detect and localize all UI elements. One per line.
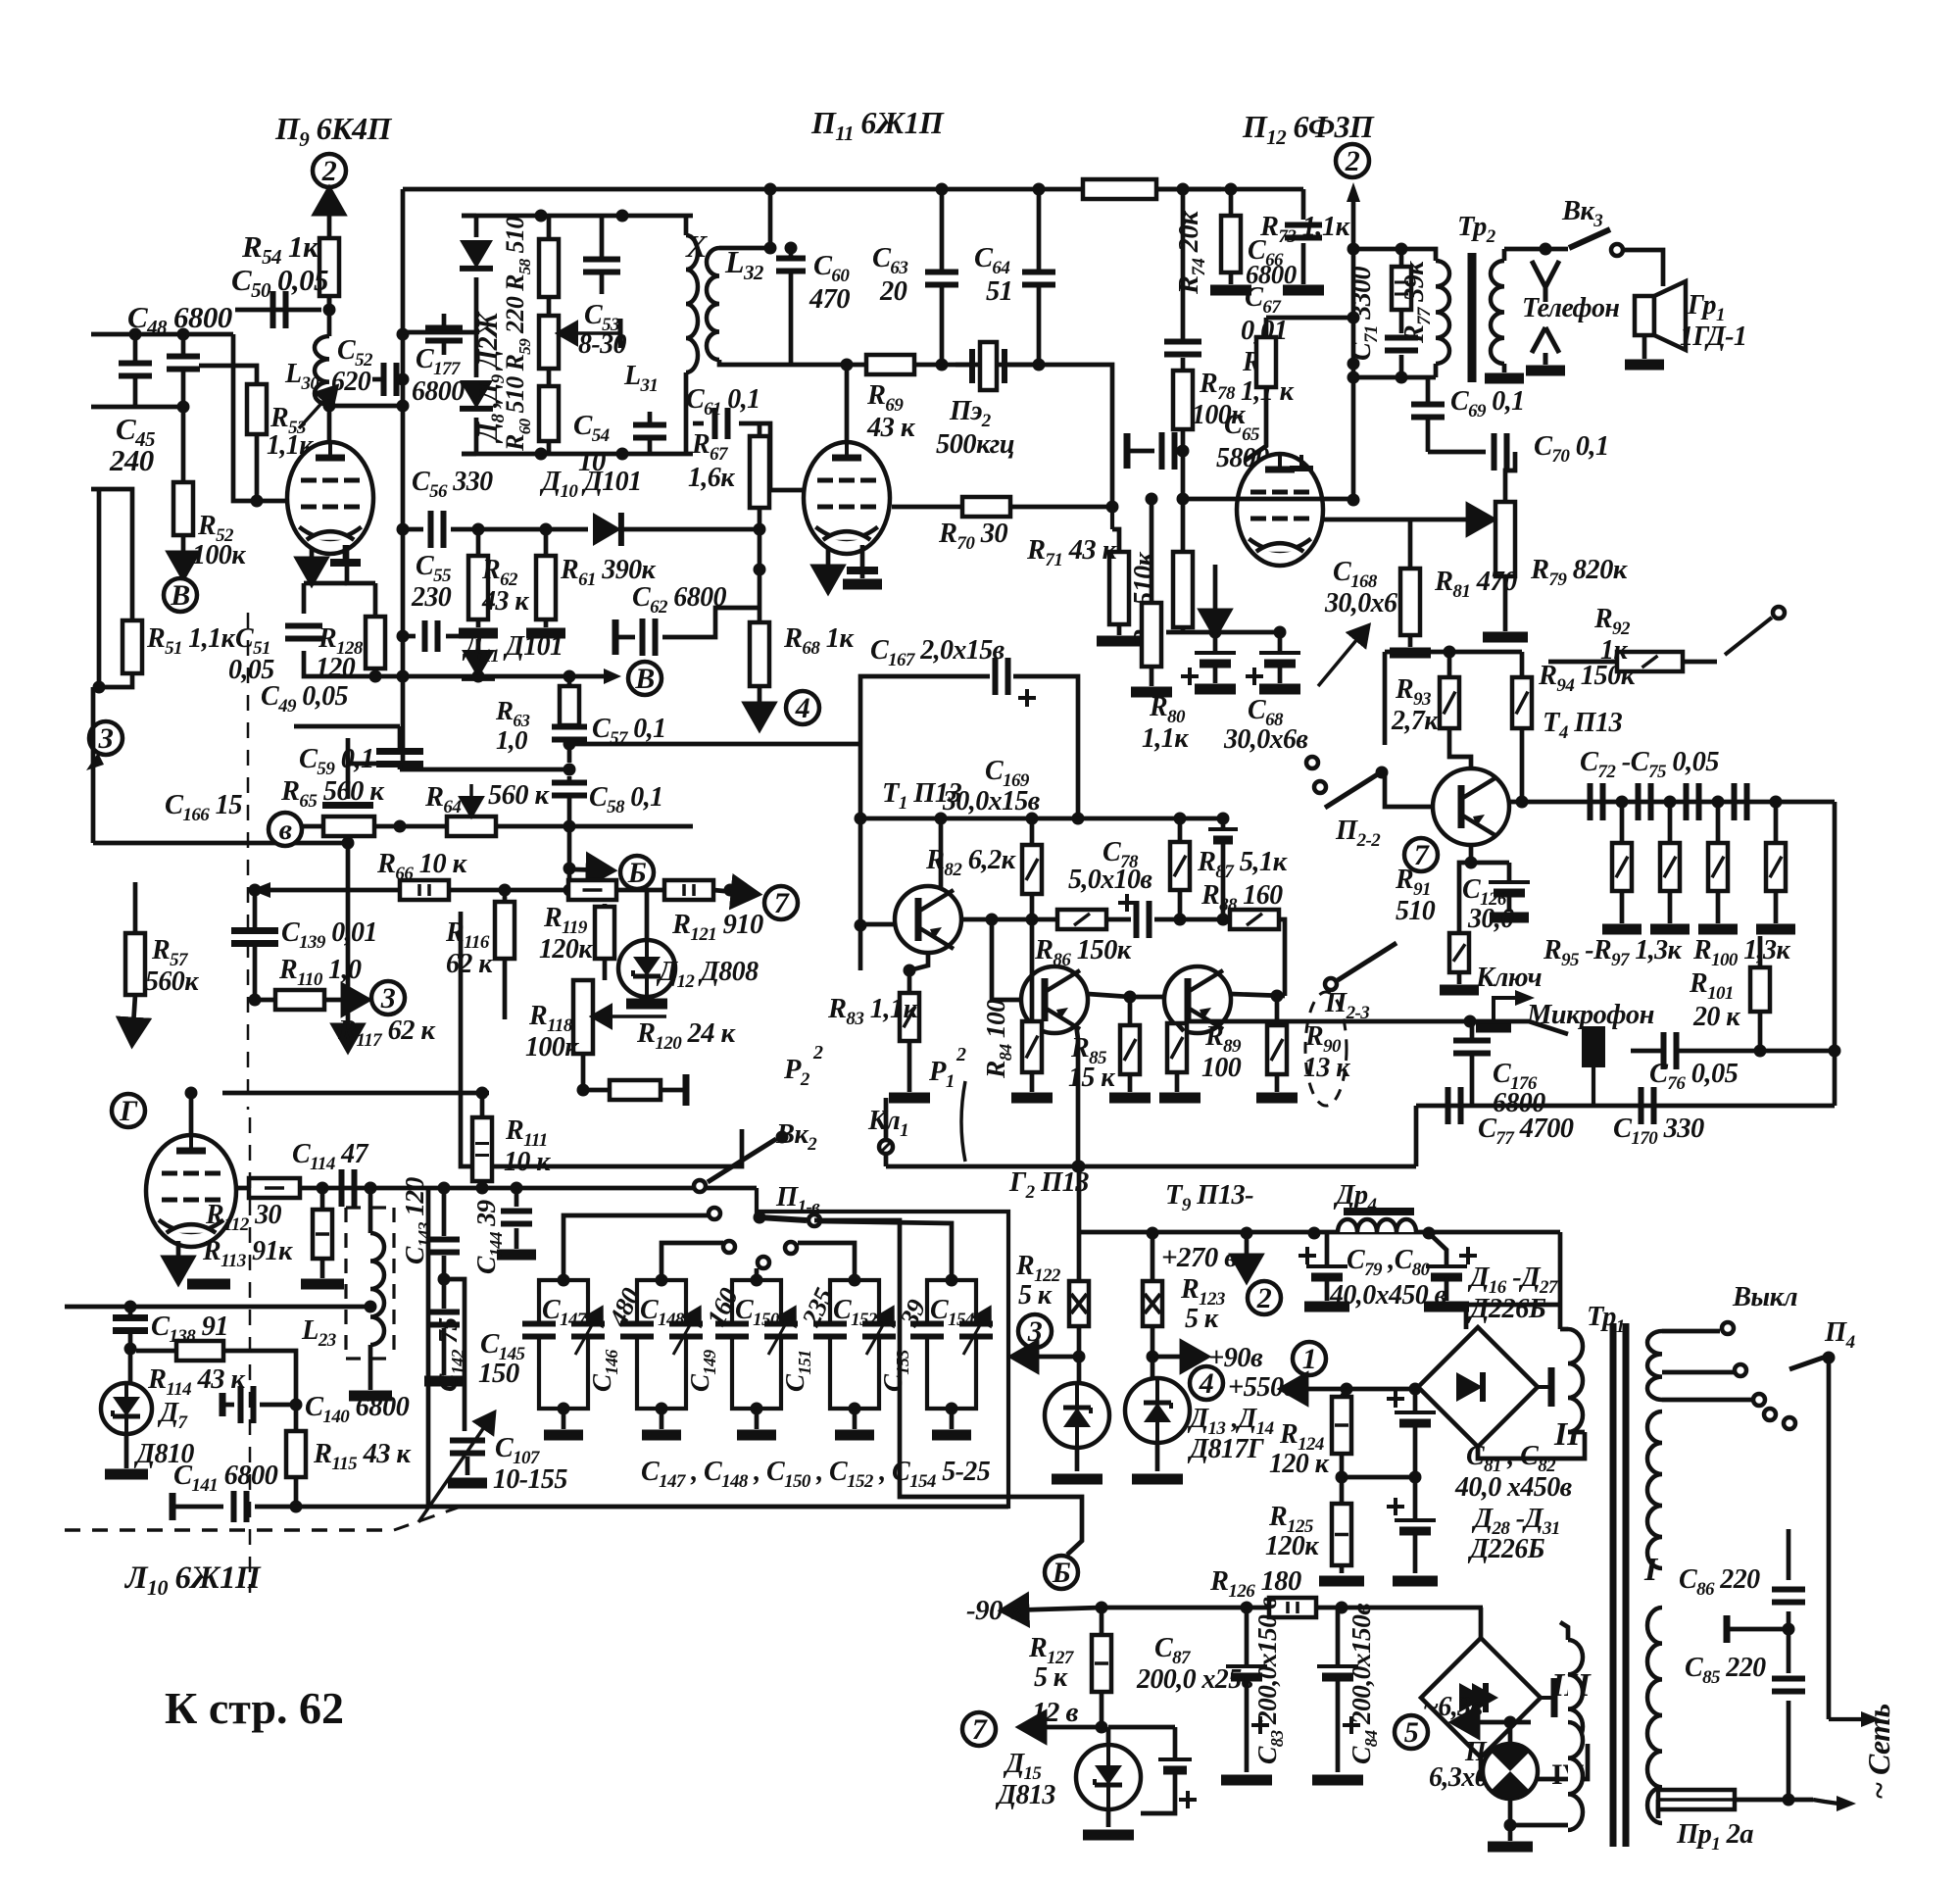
svg-text:Г: Г (119, 1095, 138, 1127)
wire row y509 (1183, 497, 1353, 502)
svg-text:150: 150 (478, 1358, 519, 1389)
capacitor C51 (285, 623, 322, 629)
resistor R79 pot (1495, 502, 1515, 576)
bridge III (1421, 1638, 1554, 1757)
svg-text:R81 470: R81 470 (1434, 567, 1517, 602)
resistor R69 (866, 355, 914, 374)
svg-text:R121 910: R121 910 (671, 910, 763, 945)
svg-text:7: 7 (1414, 839, 1430, 871)
svg-text:Д10 Д101: Д10 Д101 (539, 467, 641, 502)
phone jack lower (1532, 327, 1559, 365)
capacitor C66 (1301, 189, 1306, 220)
svg-text:С147 , С148 , С150 , С152 , С1: С147 , С148 , С150 , С152 , С154 5-25 (641, 1457, 991, 1492)
svg-text:5: 5 (1404, 1716, 1419, 1749)
resistor R67 (750, 436, 769, 508)
resistor R121 (664, 880, 713, 900)
T4 collector row (1509, 800, 1835, 805)
svg-text:С61 0,1: С61 0,1 (686, 384, 760, 420)
trimmer C107 (450, 1438, 485, 1444)
wire box left with diodes (474, 216, 479, 237)
svg-text:560 к: 560 к (488, 780, 550, 811)
bottom rail y1190 (886, 1164, 1416, 1169)
capacitor C54 (633, 422, 666, 428)
wire bus right of R73 (1156, 187, 1303, 192)
П4 feed down (1827, 1358, 1832, 1719)
transistor Т4 (1433, 768, 1509, 845)
wire tube П10 top (189, 1093, 194, 1135)
switch П2-2 (1306, 757, 1318, 768)
divider box outline (461, 912, 742, 1166)
bridge II top lead (1466, 1305, 1560, 1329)
choke Др4 coil (1338, 1219, 1416, 1232)
svg-text:С59 0,1: С59 0,1 (299, 744, 374, 779)
wire tap row y1333 (65, 1305, 370, 1310)
svg-text:4: 4 (795, 692, 810, 724)
diode Д8 (460, 240, 493, 269)
svg-text:2,7к: 2,7к (1391, 706, 1439, 736)
resistor R124 (1332, 1397, 1351, 1454)
primary winding I (1647, 1411, 1662, 1568)
zener Д13 (1077, 1357, 1082, 1383)
capacitor C70 (1428, 450, 1486, 455)
wire tube plate (327, 406, 332, 443)
capacitor C76 (1661, 1032, 1667, 1069)
winding IV (1568, 1722, 1583, 1830)
bottom long rail y1128 (1416, 1104, 1835, 1109)
svg-text:1к: 1к (1600, 635, 1628, 666)
capacitor C60 (776, 256, 806, 262)
resistor R84 (1022, 1021, 1042, 1072)
svg-text:Д817Г: Д817Г (1187, 1434, 1265, 1464)
center tap bar (1754, 1627, 1788, 1632)
piezo ПЭ2 (980, 342, 997, 390)
capacitor C77 in rail (1445, 1087, 1451, 1124)
capacitor C63 (925, 270, 958, 275)
capacitor C61 (693, 421, 704, 426)
svg-text:1: 1 (1302, 1343, 1316, 1375)
svg-text:2: 2 (812, 1042, 823, 1064)
terminal 1 power (1293, 1342, 1326, 1375)
wire grid3 row (892, 505, 962, 510)
terminal 2 (anode supply, left) (313, 154, 346, 187)
svg-text:С69 0,1: С69 0,1 (1450, 386, 1525, 421)
svg-text:С85 220: С85 220 (1685, 1653, 1766, 1688)
wire corner to grid (233, 334, 290, 501)
svg-text:+270 в: +270 в (1161, 1242, 1237, 1273)
zener Д14 (1151, 1357, 1155, 1378)
svg-text:С170 330: С170 330 (1613, 1114, 1704, 1149)
svg-text:8-30: 8-30 (578, 329, 627, 360)
T1 base wire (860, 922, 895, 927)
bottom rail of Тр2 cell (1353, 375, 1436, 380)
bridge II bottom lead (1478, 1432, 1585, 1459)
svg-text:620: 620 (331, 367, 371, 397)
diode Д9 (460, 380, 493, 409)
cathode rail П12 (1166, 630, 1280, 635)
svg-text:С141 6800: С141 6800 (173, 1460, 278, 1496)
resistor R116 (495, 902, 514, 959)
zener Д15 (1106, 1727, 1111, 1745)
T1 top rail y835 (860, 817, 1223, 821)
resistor R51 (122, 620, 142, 673)
terminal Б (620, 856, 654, 889)
bank cell С_{150} (732, 1280, 781, 1409)
resistor R90 (1267, 1025, 1287, 1074)
resistor R128 (366, 617, 385, 668)
svg-text:100к: 100к (525, 1032, 579, 1063)
svg-text:Д226Б: Д226Б (1467, 1534, 1545, 1564)
resistor R53 (247, 384, 267, 434)
bank cell С_{154} (927, 1280, 976, 1409)
capacitor C176 (1453, 1038, 1491, 1044)
primary winding top section (1647, 1331, 1662, 1400)
svg-text:~ Сеть: ~ Сеть (1861, 1705, 1896, 1801)
svg-text:240: 240 (109, 443, 154, 477)
mid rail (1342, 1475, 1415, 1480)
svg-text:I: I (1643, 1552, 1659, 1588)
resistor R80 (1142, 603, 1161, 667)
resistor R74 (1221, 216, 1241, 272)
tube П11 cathode arrow (826, 549, 831, 588)
resistor R72 body (1173, 371, 1193, 429)
switch П4 lever (1789, 1356, 1829, 1369)
svg-text:в: в (279, 814, 292, 846)
switch Вк3 (1569, 229, 1610, 248)
svg-text:П11 6Ж1П: П11 6Ж1П (810, 105, 945, 145)
svg-text:7: 7 (774, 887, 790, 919)
resistor R91 (1449, 933, 1469, 972)
svg-text:10 к: 10 к (504, 1147, 551, 1177)
fuse Пр1 (1656, 1800, 1661, 1818)
wire R78 top to x1381 (1266, 316, 1353, 321)
capacitor C50 (235, 308, 321, 313)
capacitor C78 electrolytic (1134, 901, 1140, 938)
resistor R123 with x (1143, 1281, 1162, 1326)
svg-text:120 к: 120 к (1269, 1449, 1330, 1479)
cathode network wires (347, 545, 375, 583)
svg-text:Б: Б (627, 857, 647, 889)
arrow R110 to 3 (324, 998, 365, 1003)
terminal З left (89, 721, 122, 755)
wire З link from terminal (346, 738, 351, 745)
resistor R60 (539, 386, 559, 441)
electrolytic C79 (1306, 1264, 1347, 1268)
svg-text:6800: 6800 (412, 376, 465, 407)
resistor R70 (962, 497, 1010, 517)
resistor R93 (1440, 677, 1459, 728)
arrow R57 down (132, 995, 135, 1041)
bank top leads (563, 1215, 708, 1280)
wire row y1212 (237, 1186, 757, 1191)
transistor Т3 (1164, 966, 1231, 1033)
svg-text:R126 180: R126 180 (1209, 1566, 1301, 1602)
resistors R95-R97, R100 (1612, 843, 1632, 891)
resistor R65 (323, 817, 374, 836)
vertical x1207 with C67 (1181, 189, 1186, 339)
collector row y938 (961, 917, 1057, 922)
terminal 4 power (1190, 1366, 1223, 1400)
svg-text:С86 220: С86 220 (1679, 1564, 1760, 1600)
bridge II (1418, 1327, 1551, 1447)
wire row y860 left (93, 841, 348, 846)
resistor R120 h (610, 1080, 661, 1100)
tube П10 cathode arrow (176, 1241, 181, 1279)
wire to R67 column (666, 527, 759, 532)
rail end down to winding II (1558, 1232, 1563, 1329)
capacitor C69 (1411, 402, 1445, 408)
capacitor C57 (552, 724, 587, 730)
svg-text:Ключ: Ключ (1475, 963, 1543, 993)
resistor R54 (319, 238, 339, 296)
capacitor C144 (514, 1188, 519, 1207)
capacitor C59 (376, 748, 423, 755)
transformer Тр2 secondary (1491, 261, 1504, 364)
svg-text:3: 3 (380, 982, 396, 1015)
diode Д10 (593, 513, 621, 546)
svg-text:С139 0,01: С139 0,01 (281, 917, 377, 953)
capacitor C177 (425, 325, 463, 331)
terminal 3 power (1018, 1314, 1052, 1348)
svg-text:7: 7 (972, 1713, 988, 1746)
resistor R101 v (1750, 967, 1770, 1012)
svg-text:5,0х10в: 5,0х10в (1068, 865, 1152, 895)
resistor R115 (286, 1431, 306, 1477)
inductor L30 variable (327, 296, 332, 336)
wire second horizontal (91, 405, 183, 410)
wire x581 down to Б row (567, 826, 572, 890)
T2 collector to T3 (1088, 994, 1130, 997)
svg-text:R82 6,2к: R82 6,2к (925, 845, 1017, 880)
small electrolytic near Д15 (1108, 1725, 1175, 1730)
svg-text:4: 4 (1199, 1367, 1214, 1400)
caps C72-C75 row (1588, 783, 1593, 820)
resistor R89 (1167, 1023, 1187, 1072)
svg-text:5 к: 5 к (1034, 1662, 1068, 1693)
arrow up to terminal 2 right (1351, 196, 1356, 249)
primary winding bottom (1647, 1608, 1662, 1823)
svg-text:R117 62 к: R117 62 к (337, 1015, 436, 1051)
svg-text:40,0х450 в: 40,0х450 в (1329, 1280, 1447, 1311)
electrolytic C80 (1426, 1264, 1467, 1268)
capacitor C114 (339, 1169, 345, 1207)
double diode in bridge III (1472, 1683, 1498, 1712)
microphone symbol (1582, 1026, 1605, 1067)
svg-text:R66 10 к: R66 10 к (376, 849, 468, 884)
lamp bottom (1508, 1799, 1513, 1825)
svg-text:30,0: 30,0 (1467, 904, 1514, 934)
zener Д7 (101, 1383, 152, 1434)
wire secondary top to phones (1504, 247, 1545, 252)
resistor R83 (900, 993, 919, 1041)
resistor R73 on bus (1083, 179, 1156, 199)
svg-text:Выкл: Выкл (1732, 1282, 1797, 1312)
lamp IV (1483, 1744, 1538, 1799)
svg-text:R68 1к: R68 1к (783, 623, 855, 659)
terminal 2 right (1336, 144, 1369, 177)
svg-text:Телефон: Телефон (1522, 293, 1619, 323)
dashed box L23 (346, 1208, 394, 1359)
resistor R86 body (1057, 910, 1106, 929)
svg-text:30,0х15в: 30,0х15в (942, 786, 1041, 817)
arrow to Б (573, 869, 610, 870)
resistor R57 (125, 933, 145, 995)
column C143/C142 (442, 1188, 447, 1236)
svg-text:30,0х6в: 30,0х6в (1223, 724, 1308, 755)
resistor R88 horizontal (1230, 910, 1279, 929)
capacitor C167 electrolytic horizontal (860, 676, 990, 744)
svg-text:5 к: 5 к (1018, 1280, 1053, 1311)
svg-text:В: В (634, 663, 654, 695)
capacitor C170 in rail (1639, 1087, 1644, 1124)
tube П9 (287, 442, 373, 554)
resistor R118 pot (573, 980, 593, 1054)
transistor Т1 (895, 886, 961, 953)
resistor R85 (1120, 1025, 1140, 1074)
resistor R92 slash horiz (1617, 652, 1683, 671)
capacitor C62 (612, 619, 619, 655)
bank cell С_{148} (637, 1280, 686, 1409)
bank cell С_{152} (830, 1280, 879, 1409)
key P1 lever (961, 1081, 965, 1162)
svg-text:R79 820к: R79 820к (1530, 555, 1629, 590)
dashed fold lines (247, 613, 250, 1110)
wire riser x1135 (1033, 359, 1046, 371)
svg-text:Б: Б (1052, 1557, 1071, 1589)
arrow 12в (1023, 1725, 1102, 1730)
electrolytic C169 drop (1208, 827, 1238, 831)
resistor R94 (1512, 677, 1532, 728)
svg-text:1ГД-1: 1ГД-1 (1680, 322, 1746, 352)
wire З row (348, 762, 403, 767)
terminal 7 power (962, 1712, 996, 1746)
svg-text:Т4 П13: Т4 П13 (1543, 708, 1622, 743)
resistor R127 (1092, 1635, 1111, 1692)
resistor R112 (249, 1178, 300, 1198)
winding II (1568, 1329, 1583, 1432)
resistor R125 (1332, 1504, 1351, 1565)
tube П9 cathode arrow (310, 549, 315, 580)
resistor R58 (539, 239, 559, 297)
wire bus to box (403, 330, 476, 335)
capacitor C65 (1127, 449, 1154, 454)
wire x355 down arrow (346, 843, 351, 1010)
resistor R81 (1400, 569, 1420, 635)
svg-text:С50 0,05: С50 0,05 (231, 263, 328, 302)
svg-text:С56 330: С56 330 (412, 467, 493, 502)
transformer Тр1 core (1610, 1323, 1617, 1847)
svg-text:20 к: 20 к (1692, 1002, 1740, 1032)
svg-text:Д226Б: Д226Б (1467, 1294, 1546, 1324)
svg-text:К стр. 62: К стр. 62 (165, 1683, 344, 1733)
resistor R64 pot (447, 817, 496, 836)
wire П1в feed down (814, 1220, 1082, 1555)
wire up from rail (1077, 1196, 1082, 1232)
power rail +270 (1079, 1230, 1560, 1235)
svg-text:R51 1,1к: R51 1,1к (146, 623, 235, 659)
svg-text:С70 0,1: С70 0,1 (1534, 431, 1609, 467)
resistor R123 lower wire (1151, 1326, 1155, 1357)
T3 collector (1231, 994, 1285, 996)
svg-text:R60 510 R59 220 R58 510: R60 510 R59 220 R58 510 (501, 217, 534, 452)
svg-text:В: В (170, 579, 189, 612)
bank cell С_{147} (539, 1280, 588, 1409)
svg-text:5 к: 5 к (1185, 1304, 1219, 1334)
svg-text:С77 4700: С77 4700 (1478, 1114, 1574, 1149)
resistor R119 body (595, 907, 614, 959)
phone jack upper (1532, 261, 1559, 302)
inductor L23 coil (370, 1233, 384, 1345)
terminal 3 (371, 981, 405, 1015)
wire bottom rail right (296, 1505, 1008, 1510)
arrow -left from R122 (1015, 1355, 1079, 1360)
resistor inline row (568, 880, 616, 900)
svg-text:R115 43 к: R115 43 к (313, 1439, 412, 1474)
primary taps to П4 (1662, 1329, 1720, 1334)
terminal 5 (1395, 1715, 1428, 1749)
switch П1-в lever (759, 1217, 807, 1220)
resistor R66 double (400, 880, 449, 900)
wire main vertical bus left (401, 189, 406, 676)
resistor R111 (472, 1117, 492, 1181)
transformer Тр2 primary (1436, 261, 1449, 364)
terminal В right (628, 662, 661, 695)
screen bar under tube (343, 545, 348, 561)
tube П12 (1237, 454, 1323, 566)
svg-text:R120 24 к: R120 24 к (636, 1018, 736, 1054)
svg-text:120к: 120к (1265, 1531, 1319, 1561)
inductor L32 (707, 248, 719, 360)
svg-text:230: 230 (411, 582, 452, 613)
bridge III top lead (1479, 1608, 1484, 1638)
right vertical x1872 (1833, 802, 1837, 1106)
arrow heater (1456, 1720, 1531, 1725)
svg-text:З: З (98, 722, 114, 755)
tap circles column (1764, 1409, 1776, 1420)
svg-text:62 к: 62 к (446, 949, 493, 979)
svg-text:2: 2 (955, 1044, 966, 1065)
row -90в (1005, 1608, 1102, 1610)
svg-text:R87 5,1к: R87 5,1к (1197, 847, 1289, 882)
svg-text:100к: 100к (192, 540, 246, 570)
wire top-left horizontal (91, 332, 233, 337)
resistor R82 (1022, 845, 1042, 894)
svg-text:6800: 6800 (1246, 260, 1298, 289)
wire Г row y1115 (222, 1091, 489, 1096)
arrow R68 down to 4 (758, 686, 762, 725)
svg-text:12 в: 12 в (1032, 1697, 1078, 1728)
vertical x1381 (1351, 249, 1356, 500)
svg-text:R71 43 к: R71 43 к (1026, 535, 1118, 570)
zener Д12 (618, 940, 675, 997)
transistor Т2 (1021, 966, 1088, 1033)
terminal 7 right (1404, 838, 1438, 871)
svg-text:2: 2 (1256, 1282, 1272, 1314)
resistor R71 (1109, 552, 1129, 624)
svg-text:R114 43 к: R114 43 к (147, 1364, 246, 1400)
T2 emitter down (1076, 1024, 1078, 1166)
svg-text:R65 560 к: R65 560 к (280, 776, 385, 812)
shielded cable dashed (1305, 992, 1347, 1106)
wire arrow to terminal 2 (327, 192, 332, 310)
svg-text:С71 3300: С71 3300 (1347, 267, 1382, 361)
wire tube П11 plate (845, 365, 850, 442)
svg-text:43 к: 43 к (481, 586, 529, 617)
terminal Б power (1045, 1556, 1078, 1589)
svg-text:51: 51 (986, 276, 1012, 307)
svg-text:2: 2 (1345, 145, 1360, 177)
wire top bus horizontal (403, 187, 1221, 192)
arrow +90в (1152, 1355, 1203, 1360)
